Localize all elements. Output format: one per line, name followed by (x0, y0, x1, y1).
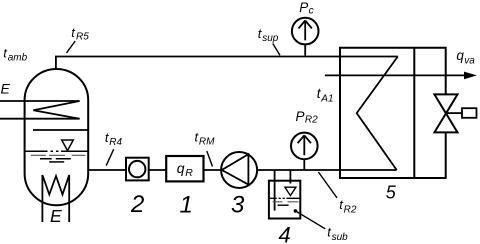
top coil zigzag (33, 101, 79, 119)
svg-text:sub: sub (332, 232, 349, 243)
svg-text:4: 4 (279, 223, 291, 244)
gauge P_c arrow (299, 21, 312, 41)
chamber divider (413, 48, 415, 178)
pipe from vessel top (56, 57, 398, 70)
pipe heater box to pump (204, 169, 222, 171)
water line with dash-dots (25, 150, 89, 152)
tick t_RM (207, 151, 213, 167)
subcooler water line (269, 197, 300, 199)
svg-text:c: c (309, 5, 314, 16)
svg-text:R: R (185, 167, 193, 179)
vessel tank walls (25, 100, 89, 174)
svg-text:q: q (177, 160, 185, 176)
svg-text:5: 5 (386, 182, 397, 202)
svg-text:va: va (464, 56, 475, 67)
svg-text:amb: amb (8, 53, 28, 64)
air flow arrowhead (464, 72, 477, 80)
pipe filter to heater box (149, 169, 167, 171)
svg-text:R2: R2 (344, 205, 357, 216)
vessel dome top (25, 69, 89, 100)
subcooler inlet dip tube (274, 170, 276, 211)
bottom main pipe from vessel to filter (88, 169, 126, 171)
air flow line q_va (325, 74, 466, 76)
leader line t_sub (295, 211, 325, 229)
svg-text:2: 2 (130, 191, 144, 218)
separator line inside vessel (33, 129, 88, 131)
subcooler 4 tank (269, 181, 300, 219)
svg-text:1: 1 (180, 192, 193, 219)
svg-text:E: E (50, 206, 62, 226)
valve actuator connector (446, 112, 462, 114)
tick t_R4 (106, 149, 114, 165)
bottom heater coil W (42, 175, 69, 222)
filter 2 square (126, 158, 149, 181)
tick t_sup (273, 44, 280, 56)
svg-text:R4: R4 (109, 137, 122, 148)
gauge P_c (292, 18, 319, 45)
level symbol triangle (62, 140, 74, 151)
top coil pipe lower line (0, 118, 80, 120)
svg-text:E: E (1, 81, 11, 97)
subcooler outlet tube (289, 170, 291, 184)
tick t_R5 (67, 41, 76, 53)
leader dot t_sub (294, 209, 298, 213)
chamber 5 outline (340, 48, 446, 178)
vessel bottom arc (25, 174, 89, 206)
svg-text:3: 3 (231, 191, 245, 218)
svg-text:q: q (456, 48, 464, 63)
heater box 1 (166, 156, 203, 181)
gauge P_c stem (304, 44, 306, 56)
chamber coil zigzag (357, 57, 398, 171)
liquid hatch row 3 (49, 161, 64, 163)
svg-text:sup: sup (262, 33, 279, 44)
svg-text:R2: R2 (305, 115, 318, 126)
pipe pump to chamber (257, 169, 397, 171)
svg-text:R5: R5 (76, 32, 89, 43)
valve actuator box (462, 108, 477, 118)
subcooler level triangle (285, 187, 296, 195)
tick t_R2 (318, 172, 337, 198)
liquid hatch row 2 (40, 158, 71, 160)
pump 3 circle (221, 152, 257, 188)
svg-text:P: P (296, 109, 305, 124)
gauge P_R2 arrow (298, 135, 311, 155)
top coil pipe upper line (0, 100, 80, 102)
gauge P_R2 stem (303, 159, 305, 170)
liquid hatch row 1 (31, 154, 86, 156)
gauge P_R2 (291, 133, 318, 160)
subcooler hatch row 1 (273, 201, 299, 203)
valve bottom triangle (434, 113, 457, 132)
svg-text:P: P (299, 0, 308, 15)
svg-text:A1: A1 (320, 93, 333, 104)
subcooler hatch row 2 (278, 204, 289, 206)
svg-text:RM: RM (199, 137, 215, 148)
filter 2 circle (129, 161, 145, 177)
pump 3 triangle (222, 154, 249, 184)
valve top triangle (434, 94, 457, 113)
